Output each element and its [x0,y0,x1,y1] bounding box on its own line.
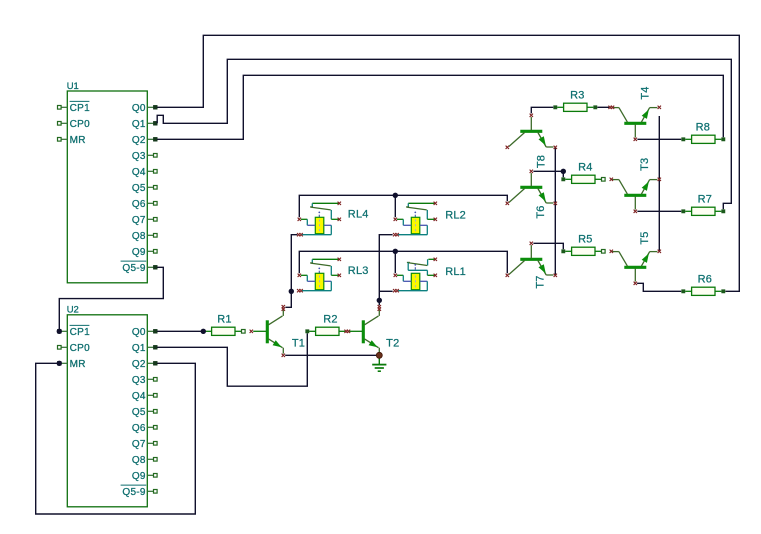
relay RL4 coil left pin [298,218,316,226]
svg-text:RL4: RL4 [348,208,369,220]
T2 emitter node [376,352,382,358]
U1 pin Q5 [132,183,157,194]
wire T4 base to R8 left [637,138,681,140]
U1 pin CP0 [58,119,91,130]
relay RL1 armature link [414,264,416,270]
wire T6 base to R4 left [533,171,563,177]
node RL4/RL3/T1 coil return junction [289,289,294,294]
svg-text:Q1: Q1 [132,119,146,130]
U2 pin Q3 [132,375,157,386]
svg-text:T8: T8 [536,155,548,168]
transistor T6 [506,170,557,219]
U1 pin Q7 [132,215,157,226]
U2 pin Q1 [132,343,157,354]
relay RL1 coil right pin [393,281,427,292]
transistor T1 [253,305,305,354]
svg-text:Q5: Q5 [132,407,146,418]
U2 pin CP1 [57,325,90,337]
svg-text:Q0: Q0 [132,327,146,338]
wire U2.Q2 to U2.MR loop [36,363,196,514]
U2 pin Q9 [132,471,157,482]
transistor T5 [610,231,661,285]
wire U1.Q5-9 to U2.CP1 [59,267,163,331]
resistor R8 [682,122,725,144]
svg-text:Q3: Q3 [132,151,146,162]
svg-text:CP0: CP0 [70,343,90,354]
svg-text:R2: R2 [323,314,337,326]
svg-text:U1: U1 [67,81,79,92]
resistor R5 [562,233,606,255]
U2 pin Q0 [132,327,157,338]
relay RL4 coil [315,217,324,233]
U1 pin Q1 [132,119,157,130]
relay RL1 coil left pin [394,274,412,282]
wire U1.Q2 to R8 (net C) [157,75,723,139]
wire U1.Q0 to R6 (net A) [157,35,739,291]
svg-text:Q9: Q9 [132,247,146,258]
relay RL2 coil right pin [393,225,427,236]
resistor R6 [682,274,725,296]
svg-text:T7: T7 [535,275,547,288]
U2 pin Q8 [132,455,157,466]
relay RL2 contact [406,202,437,221]
svg-text:R3: R3 [570,89,584,101]
U1 pin Q2 [132,135,157,146]
wire T1 emitter to ground node [285,354,376,356]
relay RL1 coil [411,273,420,289]
resistor R4 [562,161,606,183]
svg-text:RL1: RL1 [445,266,466,278]
svg-text:Q4: Q4 [132,167,146,178]
relay RL3 coil [315,273,324,289]
IC U2 [67,305,148,507]
svg-text:CP1: CP1 [70,327,90,338]
resistor R3 [554,89,597,111]
svg-text:Q2: Q2 [132,359,146,370]
node T2 collector junction [377,298,382,303]
svg-text:CP0: CP0 [70,119,90,130]
svg-text:Q2: Q2 [132,135,146,146]
relay RL1 contact [407,258,437,277]
relay RL4 armature link [318,212,320,218]
IC U1 [67,81,148,283]
wire RL1 coil left drop [394,251,396,273]
svg-text:Q3: Q3 [132,375,146,386]
svg-text:R4: R4 [578,161,592,173]
node U2.MR junction [57,361,62,366]
U1 pin Q8 [132,231,157,242]
svg-text:T4: T4 [640,86,652,99]
resistor R2 [306,314,346,336]
svg-text:Q5: Q5 [132,183,146,194]
U1 pin MR [58,135,86,146]
wire RL2 coil left drop [394,195,396,217]
relay RL4 contact [310,202,341,221]
U2 pin Q5 [132,407,157,418]
resistor R1 [205,314,245,336]
svg-text:R1: R1 [217,314,231,326]
R1 right pin mark [250,330,253,333]
node RL1 coil supply junction [393,249,398,254]
wire relay RL4/RL2 supply to T6 collector [299,195,507,217]
svg-text:Q0: Q0 [132,103,146,114]
U1 pin Q4 [132,167,157,178]
R2 right pin mark [344,330,350,333]
U2 pin CP0 [58,343,91,354]
U2 pin Q6 [132,423,157,434]
svg-text:R5: R5 [578,233,592,245]
T1 emitter pin mark [282,354,285,357]
svg-text:Q7: Q7 [132,439,146,450]
wire emitter bus T3/T5 [658,116,660,251]
svg-text:Q7: Q7 [132,215,146,226]
relay RL2 coil [411,217,420,233]
svg-text:Q6: Q6 [132,423,146,434]
svg-text:Q9: Q9 [132,471,146,482]
svg-text:R8: R8 [696,122,710,134]
wire T3 base to R7 left [637,210,681,212]
transistor T7 [506,242,557,289]
svg-text:U2: U2 [67,305,79,316]
wire U2.Q1 to R2 left [157,333,307,386]
relay RL3 coil right pin [297,281,331,292]
U2 pin MR [57,359,85,370]
wire RL1 coil return joint [379,290,392,292]
svg-text:R6: R6 [698,274,712,286]
U2 pin Q4 [132,391,157,402]
U1 pin Q9 [132,247,157,258]
U1 pin CP1 [58,101,91,113]
svg-text:Q5-9: Q5-9 [122,487,146,498]
resistor R7 [682,194,725,216]
U1 pin Q5-9 [121,261,158,274]
svg-text:Q8: Q8 [132,231,146,242]
svg-text:T6: T6 [535,205,547,218]
relay RL3 contact [310,258,341,277]
svg-text:T3: T3 [639,158,651,171]
wire emitter bus T8/T6/T7 [554,148,556,275]
svg-text:Q6: Q6 [132,199,146,210]
node RL2 coil supply junction [393,193,398,198]
relay RL2 armature link [414,212,416,218]
transistor T3 [610,158,661,213]
node U2.CP1 junction [57,329,62,334]
svg-text:RL3: RL3 [348,265,369,277]
relay RL3 armature link [318,268,320,274]
U1 pin Q6 [132,199,157,210]
wire U2.Q0 to R1 [157,330,201,332]
U2 pin Q7 [132,439,157,450]
U2 pin Q2 [132,359,157,370]
node R4/T6 base junction [561,169,566,174]
wire relay RL3/RL1 supply to T7 collector [299,251,507,273]
svg-text:CP1: CP1 [70,103,90,114]
U2 pin Q5-9 [121,485,158,498]
svg-text:MR: MR [70,359,86,370]
transistor T8 [506,114,557,169]
wire R3 right to T4 collector [597,106,609,108]
wire U1.Q1 to R7 (net B) [157,59,731,209]
transistor T2 [349,305,399,354]
svg-text:Q5-9: Q5-9 [122,263,146,274]
wire RL2/RL1 coil return to T2 collector [379,235,392,306]
svg-text:MR: MR [70,135,86,146]
svg-text:Q8: Q8 [132,455,146,466]
U1 pin Q3 [132,151,157,162]
svg-text:Q4: Q4 [132,391,146,402]
ground at T2 emitter [372,358,386,371]
wire T8 base to R3 left [531,107,553,113]
relay RL2 coil left pin [394,218,412,226]
U1 pin Q0 [132,103,157,114]
node R1 left junction [201,329,206,334]
relay RL3 coil left pin [298,274,316,282]
transistor T4 [608,86,661,141]
wire RL4/RL3 coil return to T1 collector [285,235,297,308]
relay RL4 coil right pin [297,225,331,236]
svg-text:T5: T5 [639,231,651,244]
svg-text:T1: T1 [292,338,305,350]
svg-text:R7: R7 [698,194,712,206]
svg-text:RL2: RL2 [445,210,466,222]
svg-text:T2: T2 [386,338,399,350]
svg-text:Q1: Q1 [132,343,146,354]
wire T7 base to R5 left [533,243,563,249]
wire T5 base to R6 left [637,283,681,291]
